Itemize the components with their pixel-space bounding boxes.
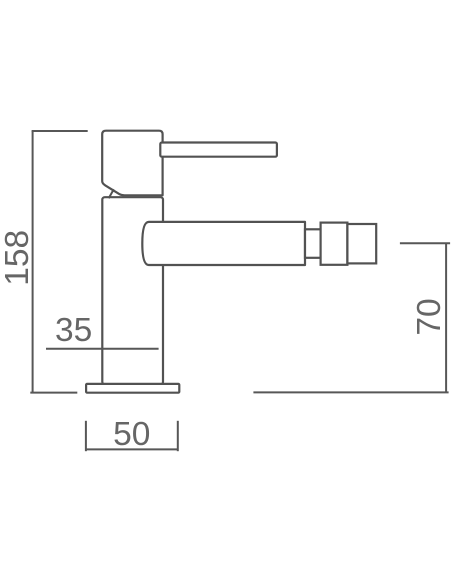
dimension 50 line	[86, 448, 178, 450]
svg-text:35: 35	[55, 312, 92, 349]
aerator housing block	[321, 223, 348, 265]
dimension 70 vertical line	[445, 243, 447, 392]
aerator end cap	[347, 224, 376, 263]
spout neck ring	[305, 229, 321, 257]
base plate	[86, 384, 179, 393]
svg-text:50: 50	[113, 416, 150, 453]
dimension 50 left tick	[85, 421, 87, 451]
cartridge housing with slanted handle base	[102, 131, 162, 196]
svg-text:70: 70	[411, 298, 448, 335]
dimension 158 top tick	[32, 130, 88, 132]
spout tube	[142, 222, 305, 265]
handle lever	[160, 143, 277, 157]
dimension 70 bottom extension line	[253, 391, 448, 393]
dimension 50 right tick	[177, 421, 179, 451]
faucet body column	[102, 197, 163, 384]
dimension 158 bottom tick	[30, 392, 77, 394]
dimension 70 top tick	[400, 242, 450, 244]
svg-text:158: 158	[0, 230, 36, 286]
dimension 35 line	[46, 348, 159, 350]
handle tip wedge	[109, 189, 114, 198]
dimension 158 vertical line	[32, 131, 34, 393]
